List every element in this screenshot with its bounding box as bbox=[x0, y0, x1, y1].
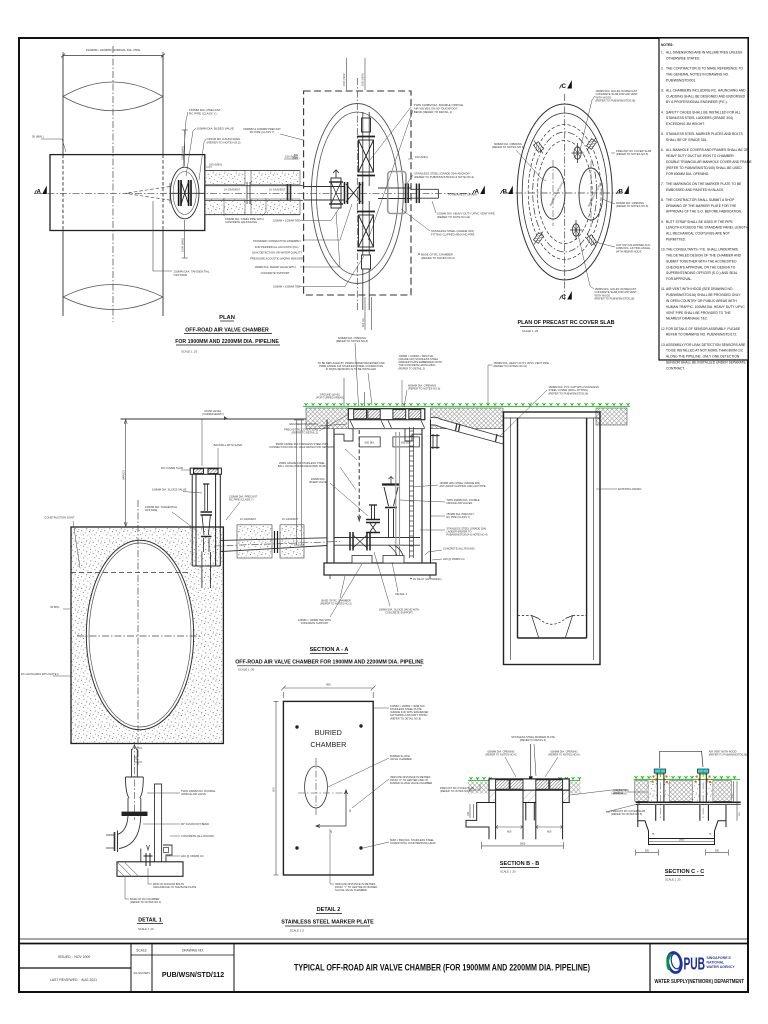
svg-text:150MM DIA. PRECASTRC PIPE (CLA: 150MM DIA. PRECASTRC PIPE (CLASS Y) bbox=[189, 108, 221, 116]
svg-text:BASE OF RC CHAMBER(REFER TO NO: BASE OF RC CHAMBER(REFER TO NOTES NO.2) bbox=[421, 253, 455, 260]
sectionBB: walls below bbox=[489, 790, 569, 839]
sectionCC: slab bbox=[636, 801, 741, 803]
svg-text:PLAN: PLAN bbox=[219, 315, 235, 321]
svg-text:CONCRETE (ALL ROUND): CONCRETE (ALL ROUND) bbox=[443, 547, 475, 551]
svg-text:CONCRETE (ALL ROUND): CONCRETE (ALL ROUND) bbox=[181, 834, 214, 838]
chamber plan: vertical branch pipe bbox=[363, 112, 369, 310]
svg-text:OFF-ROAD AIR VALVE CHAMBER: OFF-ROAD AIR VALVE CHAMBER bbox=[185, 328, 269, 334]
air vent hole bottom bbox=[570, 220, 582, 240]
label av dilut lettering bbox=[410, 578, 412, 580]
section AA: grass line bbox=[303, 403, 630, 406]
svg-text:SCALE 1 :30: SCALE 1 :30 bbox=[238, 668, 255, 672]
detail1 labels below bbox=[148, 868, 152, 884]
svg-text:600: 600 bbox=[507, 831, 512, 834]
depth dim lines left of chamber bbox=[294, 420, 304, 545]
svg-text:SCALE 1 :25: SCALE 1 :25 bbox=[522, 329, 539, 333]
svg-text:TO BE REPLACED BY 150MM×150MM: TO BE REPLACED BY 150MM×150MM RECESSED A… bbox=[317, 361, 384, 371]
plan: pipe dimension bbox=[61, 52, 165, 60]
sectionBB: bottom dim bbox=[481, 842, 563, 849]
section AA: ground hatch left of slab bbox=[306, 408, 348, 429]
svg-text:450: 450 bbox=[326, 683, 331, 687]
svg-text:OFF-ROAD AIR VALVE CHAMBER FOR: OFF-ROAD AIR VALVE CHAMBER FOR 1900MM AN… bbox=[235, 660, 424, 666]
svg-text:100MM HDG STEEL (GRADE 304)ANT: 100MM HDG STEEL (GRADE 304)ANTI-DROP CLI… bbox=[439, 481, 485, 488]
svg-text:A: A bbox=[37, 189, 42, 196]
chamber plan top dim bbox=[346, 58, 365, 90]
svg-text:GROUND LEVEL(FOR TURFED AREAS): GROUND LEVEL(FOR TURFED AREAS) bbox=[316, 393, 344, 400]
dim lines above slab bbox=[344, 378, 365, 406]
plan: big pipeline bbox=[63, 56, 163, 316]
svg-text:1800: 1800 bbox=[679, 838, 685, 841]
B flag right bbox=[617, 186, 629, 196]
svg-text:600MM DIA. OPENING(REFER TO NO: 600MM DIA. OPENING(REFER TO NOTES NO.6) bbox=[548, 750, 579, 757]
svg-text:100MM DIA. SLUICE VALVE: 100MM DIA. SLUICE VALVE bbox=[152, 488, 187, 492]
chamber plan: exit pipe flanges bbox=[406, 184, 420, 204]
svg-text:H10 @ 150MM CC: H10 @ 150MM CC bbox=[443, 557, 465, 561]
cover slab opening right bbox=[579, 168, 603, 220]
svg-text:100 (MIN.): 100 (MIN.) bbox=[415, 155, 428, 159]
chamber plan: dashed excavation square bbox=[304, 91, 411, 295]
construction joint dashed bbox=[71, 572, 190, 574]
C flag bottom bbox=[560, 291, 572, 301]
notes panel bbox=[659, 38, 748, 360]
sectionBB: room dims bbox=[496, 826, 563, 829]
svg-text:BURIED: BURIED bbox=[315, 728, 342, 737]
svg-text:C: C bbox=[562, 294, 567, 301]
big pipe: centerlines bbox=[137, 500, 139, 765]
svg-text:SECTION A - A: SECTION A - A bbox=[310, 647, 349, 653]
plan: bleed valve circle bbox=[170, 167, 199, 219]
detail1 labels right bbox=[147, 792, 180, 794]
section AA: road level line bbox=[121, 418, 328, 420]
svg-text:CONSTRUCTION JOINT: CONSTRUCTION JOINT bbox=[44, 516, 75, 520]
tower: cover slab bbox=[190, 468, 221, 474]
svg-text:SCALE 1 :20: SCALE 1 :20 bbox=[665, 878, 681, 882]
svg-text:600MM DIA. OPENING(REFER TO NO: 600MM DIA. OPENING(REFER TO NOTES NO.6) bbox=[408, 384, 440, 391]
svg-text:1500 (MIN.): 1500 (MIN.) bbox=[343, 73, 346, 86]
detail1: concrete block bbox=[160, 845, 172, 862]
label cover slab right bbox=[611, 152, 615, 154]
plan: pipe joint lens bottom bbox=[63, 285, 163, 310]
chamber plan: small bleed valve left bbox=[329, 170, 343, 208]
sectionBB: marker plate stub bbox=[529, 776, 533, 779]
title block bbox=[19, 944, 748, 992]
sectionCC: vent pipes bbox=[657, 773, 706, 802]
svg-text:150: 150 bbox=[467, 811, 470, 816]
detail2: marker plate bbox=[283, 701, 373, 875]
section AA: chamber walls bbox=[327, 420, 431, 563]
chamber plan bottom dim bbox=[365, 297, 372, 330]
sectionBB: left step bbox=[466, 803, 489, 840]
svg-text:600MM DIA. OPENING(REFER TO NO: 600MM DIA. OPENING(REFER TO NOTES NO.6) bbox=[616, 201, 648, 208]
svg-text:600: 600 bbox=[547, 831, 552, 834]
sectionBB: slab band bbox=[489, 779, 569, 790]
section AA: elbow to pedestal bbox=[389, 545, 404, 556]
svg-text:TYPICAL OFF-ROAD AIR VALVE CHA: TYPICAL OFF-ROAD AIR VALVE CHAMBER (FOR … bbox=[294, 963, 590, 973]
svg-text:100MM DIA. BLEED VALVE: 100MM DIA. BLEED VALVE bbox=[197, 127, 234, 131]
section AA: corbels bbox=[334, 429, 353, 441]
svg-text:PLAN OF PRECAST RC COVER SLAB: PLAN OF PRECAST RC COVER SLAB bbox=[517, 320, 614, 326]
label precast rc pipe bbox=[183, 112, 188, 168]
label upvc vent pipe bbox=[432, 201, 436, 213]
label bleed valve bbox=[186, 128, 196, 176]
sectionCC: base structure bbox=[638, 805, 726, 839]
svg-text:WATER SUPPLY(NETWORK) DEPARTME: WATER SUPPLY(NETWORK) DEPARTMENT bbox=[655, 979, 745, 985]
svg-text:65MM GRADE 316 STAINLESS STEEL: 65MM GRADE 316 STAINLESS STEEL PIPECONNE… bbox=[269, 442, 335, 449]
label holes top bbox=[580, 96, 595, 150]
detail1: air valve bell bbox=[126, 777, 144, 798]
svg-text:90° DUCKFOOT BEND: 90° DUCKFOOT BEND bbox=[181, 822, 209, 826]
section AA: varies dim bbox=[124, 420, 127, 527]
vertical dim 1500 top bbox=[182, 130, 188, 166]
svg-text:5MM × 5MM DIA. STAINLESS STEEL: 5MM × 5MM DIA. STAINLESS STEELSCREW WITH… bbox=[390, 838, 436, 845]
svg-text:BURIED SLUICEVALVE CHAMBER: BURIED SLUICEVALVE CHAMBER bbox=[390, 754, 412, 761]
svg-text:A: A bbox=[475, 189, 480, 196]
svg-text:ISSUED : NOV 2000: ISSUED : NOV 2000 bbox=[58, 955, 90, 959]
plan: chamber slab rectangle bbox=[50, 155, 205, 231]
sectionCC: orange dots bbox=[651, 775, 711, 783]
sloped pvc pipe bbox=[431, 418, 503, 445]
chamber plan: main pipe through bbox=[304, 187, 411, 201]
svg-text:SECTION C - C: SECTION C - C bbox=[665, 869, 704, 875]
BB section line bbox=[503, 192, 627, 194]
svg-text:100 (MIN.): 100 (MIN.) bbox=[209, 163, 222, 167]
CC section line bbox=[564, 94, 566, 300]
svg-text:150MM DIA. HOLES IN PRECASTCON: 150MM DIA. HOLES IN PRECASTCONCRETE SLAB… bbox=[596, 89, 638, 103]
svg-text:DETAIL 2: DETAIL 2 bbox=[317, 907, 340, 913]
label lifting anchor bbox=[595, 242, 615, 247]
svg-text:B: B bbox=[503, 189, 508, 196]
sectionCC: ground xhatch bbox=[635, 781, 648, 802]
svg-text:C25/30 RC HAUNCHING(REFER TO N: C25/30 RC HAUNCHING(REFER TO NOTE NO.2) bbox=[207, 137, 242, 145]
svg-text:100MM × 100MM TEE: 100MM × 100MM TEE bbox=[273, 285, 300, 289]
sectionCC: cyan hoods bbox=[654, 769, 665, 773]
svg-text:600: 600 bbox=[645, 850, 650, 853]
section AA: ground hatch right of chamber bbox=[431, 408, 504, 429]
chamber plan: vertical centerline bbox=[356, 78, 358, 312]
svg-text:50 MIN.: 50 MIN. bbox=[50, 605, 60, 609]
label tangential offtake bbox=[153, 201, 172, 271]
svg-text:SCALE 1 :10: SCALE 1 :10 bbox=[138, 927, 154, 931]
section AA: drop pipe dashed bbox=[358, 430, 360, 520]
svg-text:PUB/WSN/STD/112: PUB/WSN/STD/112 bbox=[162, 972, 224, 979]
label ss anchor bbox=[406, 175, 413, 185]
existing drain bbox=[504, 412, 601, 665]
section AA: ground hatch right of drain bbox=[596, 408, 627, 425]
svg-text:600 SQ.: 600 SQ. bbox=[362, 318, 365, 327]
detail2 labels right bbox=[373, 707, 389, 709]
detail1: riser pipe bbox=[132, 745, 138, 777]
detail1: base slab bbox=[117, 862, 183, 877]
svg-text:ENGINEERING BRICKS: ENGINEERING BRICKS bbox=[289, 422, 318, 426]
chamber plan: outer wall ellipse bbox=[311, 104, 403, 284]
section arrow A left bbox=[35, 186, 47, 196]
detail1: flange bbox=[122, 812, 148, 816]
pipe casing stipple bbox=[237, 525, 272, 558]
svg-text:BACKFILL WITH SAND: BACKFILL WITH SAND bbox=[214, 443, 242, 447]
chamber plan: puddle flange gray bbox=[388, 172, 406, 214]
svg-text:1% GRADIENT: 1% GRADIENT bbox=[224, 189, 241, 192]
svg-text:PUB: PUB bbox=[684, 954, 706, 974]
plan: valve bowtie X bbox=[181, 182, 189, 205]
svg-text:600: 600 bbox=[715, 850, 720, 853]
C flag top bbox=[560, 80, 572, 90]
svg-text:1% GRADIENT: 1% GRADIENT bbox=[282, 518, 299, 521]
svg-text:1500 (MIN.): 1500 (MIN.) bbox=[181, 238, 185, 252]
svg-text:600MM DIA. OPENING(REFER TO NO: 600MM DIA. OPENING(REFER TO NOTES NO.6) bbox=[485, 750, 516, 757]
chamber plan: air valve assembly bottom bbox=[357, 212, 375, 270]
svg-text:600 DIA.: 600 DIA. bbox=[365, 440, 375, 444]
section AA: cover slab band bbox=[348, 409, 425, 420]
svg-text:STAINLESS STEEL (GRADE 304) AN: STAINLESS STEEL (GRADE 304) ANCHOR(REFER… bbox=[414, 172, 474, 179]
svg-text:1500 (MIN.): 1500 (MIN.) bbox=[181, 146, 185, 160]
A flag mid bbox=[473, 186, 485, 196]
plan: haunching stipple left pair bbox=[205, 170, 300, 214]
svg-text:DETAIL 1: DETAIL 1 bbox=[395, 592, 407, 596]
svg-text:EXISTING DRAIN: EXISTING DRAIN bbox=[618, 487, 641, 491]
detail2: screws bbox=[295, 725, 298, 728]
plan: tangential offtake taper bbox=[125, 183, 170, 204]
cover slab opening left bbox=[541, 167, 565, 219]
PUB logo bbox=[655, 951, 745, 985]
section AA: opening shafts with 600 dia bbox=[359, 437, 419, 447]
plan: branch pipe lines bbox=[205, 170, 303, 214]
svg-text:STAINLESS STEEL (GRADE 304)FIT: STAINLESS STEEL (GRADE 304)FITTING CLIPP… bbox=[431, 229, 475, 236]
svg-text:100MM × 100MM TEE WITHCONCRETE: 100MM × 100MM TEE WITHCONCRETE SUPPORT bbox=[298, 618, 331, 625]
svg-text:SCALE 1 :20: SCALE 1 :20 bbox=[500, 870, 516, 874]
detail1: support column bbox=[155, 784, 162, 862]
sectionBB: ground hatch bbox=[468, 782, 489, 794]
svg-text:LAST REVIEWED : AUG 2021: LAST REVIEWED : AUG 2021 bbox=[50, 978, 97, 982]
svg-text:150MM DIA. PRECASTRC PIPE (CLA: 150MM DIA. PRECASTRC PIPE (CLASS Y) bbox=[446, 512, 474, 519]
detail1: duckfoot bend bbox=[106, 816, 141, 852]
svg-text:PRECAST RC COVER SLAB(REFER TO: PRECAST RC COVER SLAB(REFER TO NOTES NO.… bbox=[440, 786, 474, 793]
cover slab plan rings bbox=[517, 104, 612, 280]
slant leaders in chamber plan bbox=[370, 107, 411, 160]
chamber plan: air valve assembly top bbox=[357, 118, 375, 176]
tower: offtake pipe down bbox=[202, 552, 211, 588]
detail2: xy bracket bbox=[316, 790, 348, 828]
svg-text:CONCRETEHAUNCHING: CONCRETEHAUNCHING bbox=[611, 789, 627, 796]
svg-text:BASE OF RC CHAMBER(REFER TO NO: BASE OF RC CHAMBER(REFER TO NOTES NO.2) bbox=[130, 897, 161, 904]
svg-text:RC COVER SLAB: RC COVER SLAB bbox=[161, 466, 183, 470]
detail2 label bottom bbox=[330, 829, 334, 884]
label holes bottom bbox=[578, 234, 594, 289]
sectionCC: stippled pipe columns bbox=[648, 775, 657, 801]
svg-text:AV DILUT (LETTERING): AV DILUT (LETTERING) bbox=[413, 577, 442, 581]
section AA: base slab bbox=[324, 563, 436, 575]
svg-text:1% GRADIENT: 1% GRADIENT bbox=[269, 189, 286, 192]
plan: pipe centerline bbox=[112, 46, 114, 322]
big pipe: stippled surround bbox=[71, 527, 223, 744]
bottom centerline tick bbox=[134, 748, 142, 762]
svg-text:SCALE: SCALE bbox=[136, 949, 146, 953]
svg-text:25MM GRADE 316 STAINLESS STEEL: 25MM GRADE 316 STAINLESS STEELBALL VALVE… bbox=[278, 461, 326, 468]
svg-text:SCALE 1 :25: SCALE 1 :25 bbox=[181, 350, 198, 354]
label ss fitting bbox=[401, 209, 430, 231]
B flag left bbox=[501, 186, 513, 196]
svg-text:H10 @ 150MM CC: H10 @ 150MM CC bbox=[181, 854, 204, 858]
svg-text:FOR 1900MM AND 2200MM DIA. PIP: FOR 1900MM AND 2200MM DIA. PIPELINE bbox=[175, 339, 279, 345]
svg-text:ROAD LEVEL(CARRIAGEWAY): ROAD LEVEL(CARRIAGEWAY) bbox=[202, 409, 224, 416]
section AA: ladder bbox=[410, 427, 414, 558]
svg-text:150MM × 100MM TEE: 150MM × 100MM TEE bbox=[273, 219, 300, 223]
svg-text:PRECAST RC COVER SLAB(REFER TO: PRECAST RC COVER SLAB(REFER TO NOTES NO.… bbox=[616, 149, 651, 156]
plan: pipe joint lens top bbox=[63, 82, 163, 111]
section AA: air valve chalice bbox=[382, 477, 400, 538]
svg-text:600: 600 bbox=[272, 787, 276, 792]
svg-text:B: B bbox=[619, 189, 624, 196]
section AA: interior pipe bbox=[334, 538, 420, 546]
plan: pipeline centerline bbox=[35, 192, 470, 194]
svg-text:DETAIL 1: DETAIL 1 bbox=[138, 918, 161, 924]
svg-text:600MM DIA. OPENING(REFER TO NO: 600MM DIA. OPENING(REFER TO NOTES NO.6) bbox=[336, 336, 368, 343]
lifting anchors bbox=[531, 139, 545, 156]
sectionCC: yellow sills bbox=[655, 774, 664, 776]
sectionCC: vent hood leader bbox=[660, 751, 703, 768]
tower: sluice valve bbox=[201, 484, 213, 552]
svg-text:INDICATE DISTANCE IN METRESFRO: INDICATE DISTANCE IN METRESFROM “X” TO C… bbox=[390, 775, 432, 785]
svg-text:AS SHOWN: AS SHOWN bbox=[133, 971, 149, 975]
section AA: pedestals bbox=[352, 556, 372, 564]
tower: walls bbox=[192, 474, 220, 566]
chamber plan: sluice valve bowtie bbox=[345, 182, 363, 204]
detail2: dims bbox=[274, 686, 376, 875]
svg-text:1% GRADIENT: 1% GRADIENT bbox=[240, 518, 257, 521]
svg-text:50 (MIN.): 50 (MIN.) bbox=[32, 135, 44, 139]
svg-text:1500 (MIN.): 1500 (MIN.) bbox=[362, 73, 365, 86]
detail1: anchor bolts bbox=[144, 853, 153, 866]
svg-text:SCALE 1 :5: SCALE 1 :5 bbox=[290, 929, 305, 933]
section AA: gate valve bbox=[350, 532, 370, 551]
sectionCC: grass bbox=[634, 776, 740, 779]
section AA: brick course under slab bbox=[348, 420, 425, 429]
svg-text:150MM DIA. PRECASTRC PIPE (CLA: 150MM DIA. PRECASTRC PIPE (CLASS Y) bbox=[229, 495, 258, 502]
vertical dim 1500 bottom bbox=[182, 220, 188, 258]
label c25 haunching bbox=[199, 139, 206, 180]
sectionBB: grass bbox=[468, 777, 581, 780]
svg-text:600MM DIA. OPENING(REFER TO NO: 600MM DIA. OPENING(REFER TO NOTES NO.6) bbox=[492, 142, 524, 149]
big pipe: bore ellipses bbox=[86, 540, 193, 729]
svg-text:1800: 1800 bbox=[520, 843, 526, 846]
section AA: vent pipe gray bbox=[396, 432, 400, 556]
detail2: valve circle bbox=[305, 766, 328, 808]
svg-text:TO NEAREST DRAIN: TO NEAREST DRAIN bbox=[447, 192, 476, 196]
dim line beside tower bbox=[201, 419, 203, 466]
plan: valve flanges bbox=[179, 180, 191, 206]
svg-text:BASE OF RC CHAMBER(REFER TO NO: BASE OF RC CHAMBER(REFER TO NOTES NO.2) bbox=[320, 599, 351, 606]
air vent hole top bbox=[572, 143, 584, 163]
section AA: vertical sluice valve bbox=[366, 505, 380, 533]
svg-text:100MM DIA.BLEED VALVE: 100MM DIA.BLEED VALVE bbox=[309, 477, 326, 484]
svg-text:VARIES: VARIES bbox=[122, 470, 126, 480]
svg-text:DRAWING NO.: DRAWING NO. bbox=[182, 949, 204, 953]
sectionCC: walls bbox=[656, 805, 709, 821]
chamber plan: inner wall ellipse bbox=[316, 112, 398, 275]
svg-text:C: C bbox=[562, 83, 567, 90]
label opening right bbox=[602, 199, 615, 204]
svg-text:RC HAUNCHING WITH NOTE 2: RC HAUNCHING WITH NOTE 2 bbox=[21, 672, 59, 676]
svg-text:150MM DIA. HOLES IN PRECASTCON: 150MM DIA. HOLES IN PRECASTCONCRETE SLAB… bbox=[595, 287, 637, 301]
svg-text:CHAMBER: CHAMBER bbox=[310, 740, 346, 749]
label base of rc chamber bbox=[418, 253, 420, 255]
svg-text:PRECAST RC COVER SLAB(REFER TO: PRECAST RC COVER SLAB(REFER TO NOTES NO.… bbox=[611, 809, 645, 816]
pipe tower to chamber bbox=[220, 538, 327, 552]
svg-text:STAINLESS STEEL MARKER PLATE: STAINLESS STEEL MARKER PLATE bbox=[281, 920, 374, 926]
vent stub above chamber bbox=[431, 434, 440, 449]
svg-text:SECTION B - B: SECTION B - B bbox=[500, 861, 539, 867]
